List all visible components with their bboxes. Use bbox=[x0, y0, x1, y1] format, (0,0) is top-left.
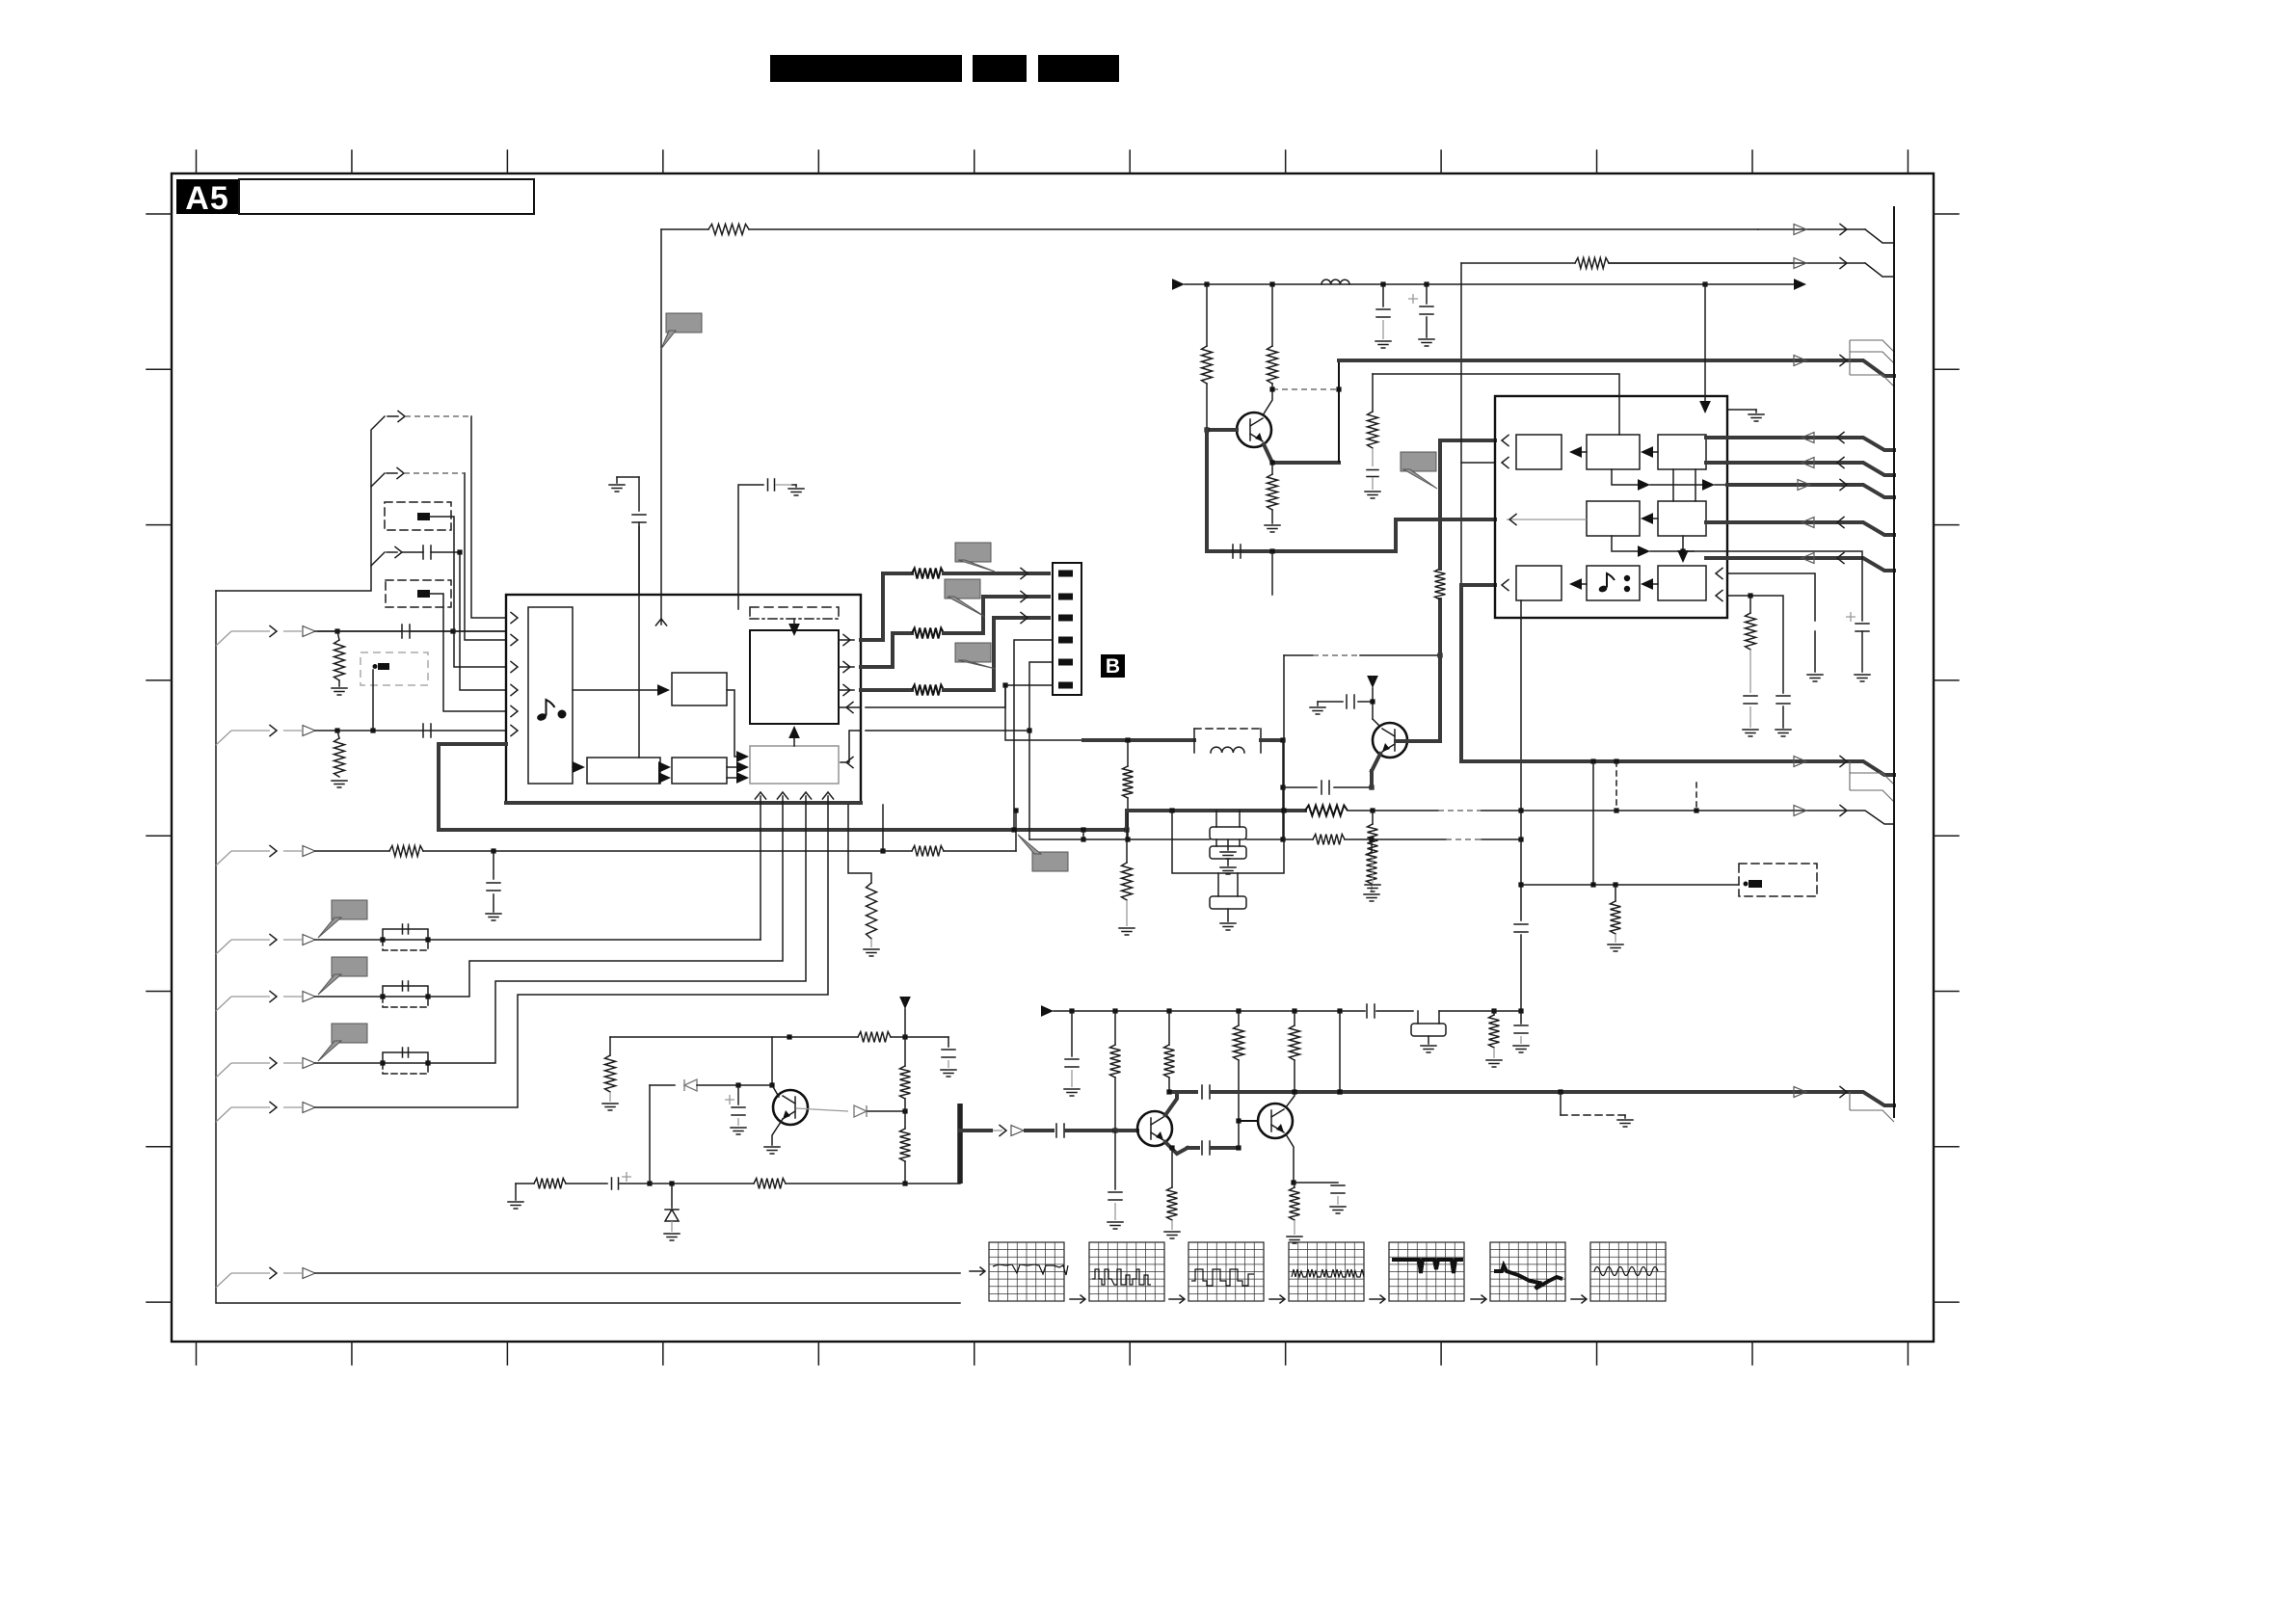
U2 gnd stub bbox=[1728, 409, 1756, 411]
flag F4 bbox=[1401, 452, 1436, 471]
thick out1 bbox=[861, 573, 912, 640]
capacitor C21 bbox=[1056, 1124, 1064, 1137]
wire x1516 to U2 480 bbox=[1461, 462, 1495, 464]
capacitor C11 bbox=[1233, 545, 1241, 558]
wire L from bus to arrow1 bbox=[216, 416, 385, 591]
U2 gray arrow 539 bbox=[1507, 519, 1587, 520]
ground R20 bbox=[1608, 945, 1623, 951]
U2 box r1c2 bbox=[1587, 435, 1640, 469]
IC U2 outline bbox=[1495, 396, 1727, 618]
Q4 collector bbox=[1286, 1092, 1295, 1107]
thick wire to Q3 bbox=[960, 1129, 991, 1132]
U2 box r3c2 bbox=[1587, 566, 1640, 600]
Q4 emitter bbox=[1286, 1134, 1294, 1183]
ground R5 bbox=[1119, 928, 1135, 935]
U2 wire y572 exit bbox=[1683, 550, 1727, 552]
ground row2 bbox=[332, 781, 347, 787]
dashed box D1 (option) bbox=[385, 502, 451, 530]
wire pin5 down bbox=[1029, 662, 1053, 839]
crystal rail bbox=[1029, 838, 1210, 840]
bus row stub diagonals bbox=[216, 631, 231, 646]
dashed stub x1760 bbox=[1695, 783, 1697, 811]
riser to IC pin4 bbox=[460, 552, 506, 690]
U2 arrow r3 c2-c1 bbox=[1578, 583, 1587, 585]
rail841 dots bbox=[1169, 808, 1174, 812]
wire to column bbox=[1494, 1010, 1521, 1012]
zener D7 bbox=[671, 1184, 673, 1208]
dashed collector link bbox=[1272, 388, 1339, 390]
capacitor C15 bbox=[1744, 696, 1757, 704]
capacitor C23 bbox=[1202, 1085, 1210, 1099]
IC U1 outline bbox=[506, 595, 861, 803]
flag F2 bbox=[945, 579, 980, 599]
resonator loop bbox=[1172, 811, 1284, 873]
Q6 emitter wire bbox=[1372, 754, 1380, 771]
junction y680 bbox=[1437, 652, 1442, 657]
capacitor C14 bbox=[1776, 696, 1790, 704]
ground rail1228 bbox=[515, 1184, 517, 1200]
staircase y790 bbox=[1850, 761, 1894, 802]
capacitor C6 to ground bbox=[493, 851, 494, 879]
crystal X1 pins bbox=[1417, 1011, 1419, 1024]
resistor R25 bbox=[1238, 1011, 1240, 1025]
crystal X2 ground bbox=[1227, 859, 1229, 865]
LR parallel box bbox=[1194, 729, 1261, 740]
resistor R20 bbox=[1615, 885, 1616, 901]
resistor R12 bbox=[1371, 839, 1373, 852]
U2 left pin 607 bbox=[1502, 579, 1508, 590]
input row arrowheads bbox=[270, 625, 277, 636]
wire pin5 branch to U1 bbox=[866, 730, 1029, 732]
resistor R24 bbox=[1168, 1011, 1170, 1045]
Q5 base thick bbox=[1207, 428, 1237, 432]
wire mux to A bbox=[573, 689, 661, 691]
thick corner to U2 row2 bbox=[1396, 519, 1495, 551]
U2 arrow into r3c3 bbox=[1682, 536, 1684, 554]
U2 box r1c3 bbox=[1658, 435, 1706, 469]
rail790 arrows bbox=[1794, 761, 1894, 775]
lower rail y1191 bbox=[1188, 1146, 1198, 1150]
U1 sub block A bbox=[672, 673, 727, 705]
wire blob1 to pin3 bbox=[430, 517, 506, 667]
connector J1 outline bbox=[1053, 563, 1081, 695]
rail841 arrows bbox=[1794, 811, 1894, 824]
resistor R16 bbox=[1271, 463, 1273, 474]
thick rail y861 bbox=[439, 828, 1127, 832]
vertical through U1 x663 bbox=[638, 522, 640, 758]
IC U1 thick bottom edge bbox=[506, 801, 861, 805]
waveform W3 bbox=[1169, 1298, 1183, 1300]
U2 box r2c2 bbox=[1587, 501, 1640, 536]
dashed box D2 (option) bbox=[386, 580, 451, 607]
wire x1332 upper bbox=[1283, 655, 1285, 811]
resistor R23 bbox=[1114, 1011, 1116, 1045]
cap row y573 arrow bbox=[371, 552, 385, 566]
resistor R28 bbox=[1294, 1183, 1295, 1187]
flag note A bbox=[666, 313, 702, 333]
frame border bbox=[172, 173, 1934, 1342]
wire y238 into bus bbox=[1865, 229, 1894, 243]
thick out2 bbox=[861, 633, 912, 667]
wire y918 bbox=[1521, 884, 1739, 886]
U2 arrow r1 c3-c2 bbox=[1649, 451, 1658, 453]
wire top y238 bbox=[661, 228, 708, 230]
wire x1320 below bbox=[1271, 551, 1273, 595]
thick wire left drop bbox=[437, 744, 441, 830]
resistor R21 bbox=[1372, 811, 1374, 824]
transistor Q6 bbox=[1373, 723, 1407, 758]
U2 supply line bbox=[1704, 284, 1706, 402]
arrow1 chevron bbox=[398, 411, 405, 421]
resistor R6 bbox=[867, 883, 877, 939]
arrows C to gray block bbox=[727, 766, 740, 768]
U1 inner block mux bbox=[528, 607, 573, 784]
wire cap right x766 bbox=[738, 485, 763, 609]
capacitor C27 electrolytic bbox=[725, 1095, 734, 1104]
wire x1216 lower bbox=[1171, 1148, 1173, 1187]
riser to IC pin1 bbox=[471, 416, 506, 618]
capacitor C4 bbox=[638, 477, 640, 511]
resistor R29 bbox=[609, 1037, 611, 1055]
U2 out y572 bbox=[1612, 536, 1642, 551]
wire left vertical bus bbox=[216, 591, 960, 1303]
crystal X2 bbox=[1210, 846, 1246, 859]
ground stub left bbox=[616, 477, 618, 483]
RC box row4 bbox=[383, 929, 428, 940]
gray dashed box D3 (option) bbox=[360, 652, 428, 685]
wire y273 into bus bbox=[1865, 263, 1894, 277]
resistor R11 bbox=[1127, 740, 1129, 766]
waveform W4 bbox=[1269, 1298, 1283, 1300]
wire x1390 drop bbox=[1339, 1011, 1341, 1092]
thick bus y374 bbox=[1339, 359, 1794, 362]
bus row y579 bbox=[1727, 558, 1894, 571]
wire row6 to riser bbox=[428, 803, 806, 1063]
capacitor C18 bbox=[1520, 1011, 1522, 1024]
rail y1228 bbox=[516, 1183, 534, 1184]
riser to IC pin2 bbox=[465, 473, 506, 640]
U1 bottom riser chevrons bbox=[755, 792, 765, 799]
capacitor C5 bbox=[768, 479, 775, 491]
U1 dashed strip bbox=[750, 607, 839, 619]
flag F1 bbox=[955, 543, 991, 562]
U2 right stubs bbox=[1706, 436, 1727, 439]
wire y595 chain bbox=[1727, 573, 1815, 621]
wire U1 to row1 node bbox=[882, 805, 884, 851]
resistor R7 bbox=[389, 846, 423, 857]
resistor R30 bbox=[904, 1037, 906, 1066]
capacitor C2 bbox=[423, 724, 431, 737]
RC box row6 bbox=[383, 1052, 428, 1063]
supply rail y1049 bbox=[1041, 1005, 1054, 1017]
wire y273 bbox=[1461, 262, 1575, 264]
thick x1493 to U2 bbox=[1438, 440, 1442, 569]
resistor R18 bbox=[1372, 374, 1374, 412]
U2 left pin 480 bbox=[1502, 457, 1508, 467]
resistor R15 bbox=[1271, 284, 1273, 346]
dashed ground stub bbox=[1560, 1092, 1562, 1115]
wire input row 1 bbox=[315, 630, 506, 632]
capacitor C25 bbox=[1294, 1182, 1338, 1184]
svg-text:A5: A5 bbox=[185, 180, 228, 217]
resistor R22 bbox=[1493, 1011, 1495, 1015]
capacitor C8 bbox=[1318, 701, 1343, 703]
wire blob3 down to row2 bbox=[372, 670, 374, 731]
wire y618 chain bbox=[1727, 596, 1783, 693]
thick out3b bbox=[944, 618, 1049, 690]
bus row y454 bbox=[1727, 438, 1894, 450]
thick out2b bbox=[944, 597, 1049, 633]
thick rail y572 bbox=[1207, 549, 1396, 553]
arrow2 chevron bbox=[397, 467, 404, 478]
frame tick marks bbox=[196, 150, 198, 1365]
wire mux to B bbox=[573, 766, 576, 768]
wire Q1 collector bbox=[771, 1037, 773, 1085]
junction cap573 bbox=[457, 549, 462, 554]
capacitor C24 bbox=[1202, 1141, 1210, 1155]
U1 input pin chevrons bbox=[511, 612, 518, 623]
wire y273 arrows bbox=[1609, 262, 1865, 264]
wire row8 bbox=[315, 1272, 960, 1274]
wire x1653 bbox=[1592, 761, 1594, 885]
crystal rail 2 bbox=[1246, 838, 1313, 840]
Q3 base wire bbox=[1115, 1129, 1137, 1132]
thick rail y790 bbox=[1461, 759, 1794, 763]
music note glyph U2 bbox=[1598, 585, 1608, 594]
ground R16 bbox=[1265, 525, 1280, 532]
riser rail861 to rail841 bbox=[1125, 811, 1129, 830]
waveform W1 bbox=[970, 1270, 983, 1272]
wire x1124 drop bbox=[1082, 830, 1084, 839]
black redaction bar 1 bbox=[770, 55, 962, 82]
dashed x1677 bbox=[1615, 761, 1617, 811]
ground R29 bbox=[602, 1104, 618, 1110]
U2 box r2c3 bbox=[1658, 501, 1706, 536]
wire pin6 down bbox=[1005, 685, 1083, 740]
arrow gray to main bbox=[793, 734, 795, 746]
junction row3 bbox=[491, 848, 495, 853]
ground C5 bbox=[792, 484, 796, 486]
column x1578 bbox=[1520, 618, 1522, 920]
wire input row 2 bbox=[315, 730, 506, 732]
ground row1 bbox=[338, 680, 340, 686]
bus row y542 bbox=[1727, 522, 1894, 535]
wire y680 bbox=[1284, 654, 1313, 656]
resonator rail y841 bbox=[1127, 809, 1305, 812]
staircase y374 bbox=[1850, 340, 1894, 386]
wire x1516 vertical bbox=[1460, 263, 1462, 585]
U2 box r3c3 bbox=[1658, 566, 1706, 600]
U1 right input 758 bbox=[841, 731, 861, 762]
ground R6 bbox=[864, 949, 879, 956]
connector blob D4 bbox=[1749, 880, 1762, 888]
thick wire U1 pin7 bbox=[439, 742, 506, 746]
dashed wire arrow1 bbox=[405, 415, 471, 417]
U1 right input 734 bbox=[839, 706, 861, 708]
U2 top entry bbox=[1373, 374, 1619, 435]
U1 gray block bbox=[750, 746, 839, 784]
wire pin6 branch to U1 bbox=[866, 685, 1005, 707]
supply arrow Q6 bbox=[1367, 676, 1378, 688]
arrow into main block bbox=[788, 624, 800, 636]
wire row7 to riser bbox=[315, 803, 828, 1107]
U1 sub block C bbox=[672, 758, 727, 784]
connector blob in D1 bbox=[417, 513, 430, 520]
transistor Q3 bbox=[1137, 1111, 1172, 1146]
svg-text:B: B bbox=[1106, 655, 1120, 678]
connector blob in D3 bbox=[378, 663, 389, 670]
U1 main block bbox=[750, 630, 839, 724]
supply rail y295 end bbox=[1705, 283, 1795, 285]
flag note F5 bbox=[1032, 852, 1068, 871]
resistor R14 bbox=[1206, 284, 1208, 346]
diode D5 bbox=[650, 1084, 675, 1086]
capacitor C10 electrolytic bbox=[1408, 294, 1418, 304]
U2 stem r3c1 bbox=[1520, 600, 1522, 618]
flag row6 bbox=[332, 1024, 367, 1043]
rail y1228 b bbox=[650, 1183, 754, 1184]
ground C8 bbox=[1317, 702, 1319, 705]
resistor R19 bbox=[1749, 596, 1751, 613]
dashed wire arrow2 bbox=[404, 472, 465, 474]
transistor Q4 bbox=[1258, 1104, 1293, 1138]
Q5 collector bbox=[1263, 389, 1272, 415]
flag F3 bbox=[955, 643, 991, 662]
dashed box D4 (option) bbox=[1739, 864, 1817, 896]
transistor Q1 bbox=[773, 1090, 808, 1125]
resistor R26 bbox=[1294, 1011, 1295, 1025]
wire x880 R chain bbox=[848, 805, 871, 883]
rail y1076 bbox=[610, 1036, 858, 1038]
wire input row 3 bbox=[315, 850, 389, 852]
flag row5 bbox=[332, 957, 367, 976]
resonator Y2 ground bbox=[1227, 909, 1229, 921]
U2 arrow r2 c3-c2 bbox=[1649, 518, 1658, 519]
wire x1331 down bbox=[1282, 740, 1284, 839]
wire y238 arrows bbox=[1758, 228, 1865, 230]
arrows B to C bbox=[660, 766, 663, 768]
black redaction bar 2 bbox=[973, 55, 1027, 82]
thick osc rail bbox=[1083, 738, 1194, 742]
capacitor C19 bbox=[1367, 1004, 1375, 1018]
Q3 emitter bbox=[1165, 1142, 1188, 1154]
rail1133 arrows bbox=[1794, 1092, 1894, 1105]
Q1 emitter bbox=[772, 1119, 783, 1145]
ground C12 bbox=[1365, 492, 1380, 498]
thick osc rail 2 bbox=[1261, 738, 1283, 742]
Q6 collector wire bbox=[1373, 719, 1379, 726]
crystal X1 bbox=[1411, 1024, 1446, 1036]
Q6 base wire bbox=[1396, 739, 1440, 743]
connector J1 pins bbox=[1058, 571, 1073, 577]
thick input bar bbox=[957, 1104, 963, 1184]
wire A to gray block bbox=[727, 690, 740, 757]
bus374 arrows bbox=[1794, 360, 1894, 376]
wire Q4 base riser bbox=[1238, 1121, 1240, 1148]
resistor R17 bbox=[1575, 258, 1609, 269]
music note glyph U1 bbox=[536, 712, 547, 722]
U2 vertical links bbox=[1672, 469, 1674, 501]
capacitor C17 bbox=[1514, 924, 1528, 932]
capacitor C12 bbox=[1367, 470, 1378, 477]
resistor R10 bbox=[912, 685, 944, 696]
black redaction bar 3 bbox=[1038, 55, 1119, 82]
capacitor C3 bbox=[423, 545, 431, 559]
thick out1b bbox=[944, 572, 1049, 575]
resistor R31 bbox=[904, 1111, 906, 1129]
flag row4 bbox=[332, 900, 367, 919]
diode D6 bbox=[796, 1108, 848, 1111]
capacitor C28 electrolytic bbox=[612, 1178, 619, 1189]
label B black box bbox=[1101, 654, 1125, 678]
U2 box r1c1 bbox=[1516, 435, 1562, 469]
thick vertical Q5 base bbox=[1205, 430, 1209, 551]
RC box row5 bbox=[383, 986, 428, 997]
capacitor C1 bbox=[402, 625, 410, 638]
wire x674 bbox=[649, 1085, 651, 1184]
resistor R13 bbox=[1438, 599, 1442, 741]
capacitor C13 electrolytic bbox=[1814, 631, 1816, 672]
crystal X1 ground bbox=[1428, 1036, 1429, 1044]
resonator Y1 ground bbox=[1227, 839, 1229, 850]
wire x1389 bbox=[1338, 360, 1340, 463]
vertical through U1 x686 bbox=[660, 595, 662, 625]
resistor R27 bbox=[1167, 1187, 1178, 1220]
capacitor C7 bbox=[1283, 786, 1317, 788]
wire row5 to riser bbox=[428, 803, 783, 997]
resistor R3 (row2 pulldown) bbox=[334, 738, 345, 777]
waveform W5 bbox=[1370, 1298, 1383, 1300]
arrow2 diagonal bbox=[371, 473, 385, 487]
riser x1054 bbox=[1015, 811, 1017, 851]
resistor R5 below rail bbox=[1126, 830, 1128, 863]
connector blob in D2 bbox=[417, 590, 430, 598]
supply arrow rail1076 bbox=[899, 997, 911, 1009]
bus row y503 bbox=[1727, 485, 1894, 497]
U2 left pin 457 bbox=[1502, 435, 1508, 445]
resonator Y2 bbox=[1210, 896, 1246, 909]
supply rail y295 bbox=[1172, 279, 1185, 290]
Q5 emitter thick bbox=[1264, 444, 1339, 463]
inductor FB1 bbox=[1322, 279, 1349, 284]
crystal rail dashes bbox=[1372, 838, 1446, 840]
U1 sub block B bbox=[587, 758, 660, 784]
resistor R9 bbox=[912, 628, 944, 639]
resonator Y1 bbox=[1210, 827, 1246, 839]
bus vertical x1965 bbox=[1893, 206, 1895, 1118]
waveform W7 bbox=[1571, 1298, 1585, 1300]
title box (blank) bbox=[239, 179, 534, 214]
bus row y480 bbox=[1727, 463, 1894, 475]
capacitor C9 bbox=[1382, 284, 1384, 306]
thick out3 bbox=[861, 688, 912, 692]
capacitor C16 electrolytic bbox=[1846, 612, 1855, 622]
ground R12 bbox=[1364, 894, 1379, 901]
thick x1516 lower bbox=[1459, 585, 1463, 761]
wire y572 chain bbox=[1727, 551, 1862, 621]
wire blob2 to pin5 bbox=[430, 594, 506, 711]
resistor R2 (row1 pulldown) bbox=[334, 640, 345, 680]
wire pin4 down bbox=[1014, 640, 1053, 830]
U2 arrow r1 c2-c1 bbox=[1578, 451, 1587, 453]
wire row3 right bbox=[883, 850, 912, 852]
waveform W6 bbox=[1471, 1298, 1484, 1300]
capacitor C20 bbox=[1071, 1011, 1073, 1056]
ground R22 bbox=[1486, 1060, 1502, 1067]
transistor Q5 bbox=[1237, 412, 1271, 447]
wire gnd-cap left bbox=[617, 476, 639, 478]
staircase y1133 bbox=[1850, 1092, 1894, 1122]
